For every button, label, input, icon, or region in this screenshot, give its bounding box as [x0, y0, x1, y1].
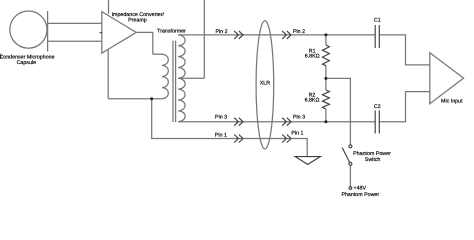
svg-text:6.8KΩ: 6.8KΩ	[305, 54, 320, 60]
svg-text:Preamp: Preamp	[128, 17, 147, 23]
svg-text:+48V: +48V	[354, 186, 367, 192]
svg-text:Mic Input: Mic Input	[441, 98, 463, 104]
svg-text:Phantom Power: Phantom Power	[341, 192, 379, 197]
svg-text:Transformer: Transformer	[157, 29, 186, 35]
svg-text:C1: C1	[374, 18, 381, 24]
svg-text:Pin 3: Pin 3	[215, 114, 227, 120]
svg-text:Switch: Switch	[365, 157, 381, 163]
svg-text:XLR: XLR	[260, 81, 270, 87]
svg-text:6.8KΩ: 6.8KΩ	[305, 98, 320, 104]
svg-text:Capsule: Capsule	[17, 60, 36, 66]
svg-text:Pin 3: Pin 3	[293, 115, 305, 121]
svg-text:Pin 2: Pin 2	[293, 29, 305, 35]
svg-text:Pin 1: Pin 1	[291, 131, 303, 137]
svg-text:Pin 1: Pin 1	[215, 133, 227, 139]
svg-text:C2: C2	[374, 104, 381, 110]
svg-text:Pin 2: Pin 2	[215, 29, 227, 35]
